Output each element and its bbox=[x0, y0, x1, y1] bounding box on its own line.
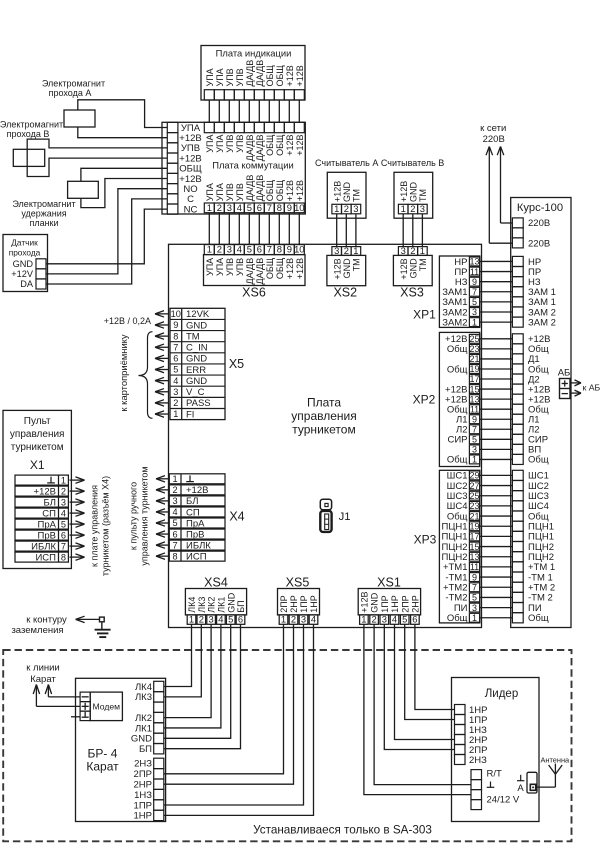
turnstile control board (Плата управления турникетом) bbox=[169, 244, 482, 627]
svg-text:C_IN: C_IN bbox=[186, 343, 208, 354]
dashed enclosure SA-303 bbox=[3, 650, 571, 841]
jumper J1 bbox=[320, 499, 350, 532]
svg-text:1ПР: 1ПР bbox=[134, 800, 152, 811]
svg-text:Пульт: Пульт bbox=[24, 416, 51, 427]
svg-text:ХР2: ХР2 bbox=[413, 393, 436, 407]
svg-text:к пульту ручного: к пульту ручного bbox=[129, 482, 139, 550]
svg-text:13: 13 bbox=[469, 257, 479, 267]
svg-text:GND: GND bbox=[370, 592, 380, 613]
svg-text:8: 8 bbox=[172, 551, 177, 561]
svg-text:ЛК4: ЛК4 bbox=[135, 682, 152, 693]
wires reader to XS2 bbox=[337, 214, 356, 247]
svg-text:ДА/ДВ: ДА/ДВ bbox=[245, 60, 255, 87]
svg-text:УПВ: УПВ bbox=[235, 68, 245, 86]
svg-text:10: 10 bbox=[294, 202, 304, 213]
brace for card receiver pins bbox=[139, 332, 153, 419]
svg-text:GND: GND bbox=[13, 259, 34, 269]
svg-text:21: 21 bbox=[469, 511, 479, 521]
svg-text:3: 3 bbox=[420, 203, 425, 214]
Kurs-100 power/aux pins bbox=[512, 334, 550, 466]
svg-text:4: 4 bbox=[237, 244, 242, 255]
electromagnet B (Электромагнит прохода В) bbox=[0, 119, 63, 166]
svg-text:4: 4 bbox=[392, 613, 397, 624]
battery АБ bbox=[558, 368, 571, 399]
svg-text:1: 1 bbox=[207, 244, 212, 255]
svg-text:ДА/ДВ: ДА/ДВ bbox=[245, 175, 255, 202]
svg-text:Электромагнит: Электромагнит bbox=[42, 79, 105, 89]
svg-text:ДА/ДВ: ДА/ДВ bbox=[245, 135, 255, 162]
indication board (Плата индикации) bbox=[201, 46, 305, 101]
svg-text:+12В: +12В bbox=[34, 486, 56, 497]
svg-text:3: 3 bbox=[227, 202, 232, 213]
svg-text:УПА: УПА bbox=[205, 68, 215, 86]
svg-text:6: 6 bbox=[172, 529, 177, 539]
label к пульту ручного управления турникетом (vertical) bbox=[129, 466, 150, 565]
svg-text:+12В: +12В bbox=[295, 65, 305, 86]
svg-text:3: 3 bbox=[61, 497, 66, 507]
svg-text:УПА: УПА bbox=[205, 135, 215, 153]
svg-text:Модем: Модем bbox=[93, 702, 121, 712]
svg-text:+12В: +12В bbox=[332, 181, 342, 202]
svg-text:ТМ: ТМ bbox=[418, 258, 428, 271]
Lider antenna connector bbox=[527, 772, 537, 793]
svg-text:1: 1 bbox=[334, 203, 339, 214]
electromagnet holding bar (Электромагнит удержания планки) bbox=[12, 181, 98, 228]
svg-text:1НЗ: 1НЗ bbox=[134, 790, 152, 801]
wire sensor +12V to NO pin bbox=[46, 189, 167, 274]
svg-text:R/T: R/T bbox=[487, 768, 503, 779]
ground symbol and A label near antenna connector bbox=[517, 775, 524, 794]
svg-text:9: 9 bbox=[472, 572, 477, 582]
svg-text:СИР: СИР bbox=[447, 435, 467, 446]
svg-text:к АБ: к АБ bbox=[583, 383, 600, 393]
BR-4 Karat unit (БР-4 Карат) bbox=[76, 678, 166, 821]
svg-text:GND: GND bbox=[408, 258, 418, 279]
svg-text:29: 29 bbox=[469, 471, 479, 481]
svg-text:Х4: Х4 bbox=[229, 510, 244, 524]
svg-text:3: 3 bbox=[472, 603, 477, 613]
svg-text:XS3: XS3 bbox=[400, 286, 424, 300]
svg-text:2: 2 bbox=[217, 244, 222, 255]
svg-text:УПВ: УПВ bbox=[225, 135, 235, 153]
svg-text:ХР3: ХР3 bbox=[414, 533, 437, 547]
svg-text:10: 10 bbox=[294, 244, 304, 255]
connector XS3 bbox=[393, 245, 432, 299]
svg-text:5: 5 bbox=[247, 202, 252, 213]
label к плате управления турникетом разъём Х4 (vertical) bbox=[90, 476, 111, 576]
svg-text:Общ: Общ bbox=[447, 344, 468, 355]
svg-text:ОБЩ: ОБЩ bbox=[265, 65, 275, 87]
svg-text:1: 1 bbox=[281, 613, 286, 624]
svg-text:7: 7 bbox=[267, 244, 272, 255]
svg-text:GND: GND bbox=[408, 182, 418, 203]
svg-text:9: 9 bbox=[287, 202, 292, 213]
svg-text:1: 1 bbox=[401, 203, 406, 214]
reader Считыватель А (Считыватель) bbox=[315, 158, 378, 218]
svg-text:17: 17 bbox=[469, 532, 479, 542]
svg-text:Считыватель А: Считыватель А bbox=[315, 158, 378, 168]
svg-text:Карат: Карат bbox=[86, 759, 119, 773]
svg-text:ЛК3: ЛК3 bbox=[135, 692, 152, 703]
svg-text:Общ: Общ bbox=[528, 455, 549, 466]
svg-text:Считыватель В: Считыватель В bbox=[381, 158, 444, 168]
svg-text:7: 7 bbox=[472, 582, 477, 592]
svg-text:+12В: +12В bbox=[285, 180, 295, 201]
svg-text:к плате управления: к плате управления bbox=[90, 485, 100, 567]
svg-text:3: 3 bbox=[382, 613, 387, 624]
svg-text:GND: GND bbox=[186, 376, 207, 387]
svg-text:8: 8 bbox=[277, 244, 282, 255]
svg-text:1: 1 bbox=[189, 613, 194, 624]
svg-text:Антенна: Антенна bbox=[540, 756, 570, 765]
svg-text:Общ: Общ bbox=[447, 613, 468, 624]
svg-text:+12В / 0,2А: +12В / 0,2А bbox=[104, 316, 151, 326]
svg-text:V_C: V_C bbox=[186, 387, 205, 398]
wire electromagnet B to УПВ and +12В pins bbox=[27, 139, 167, 176]
svg-text:УПА: УПА bbox=[215, 258, 225, 276]
svg-text:ЛК1: ЛК1 bbox=[217, 597, 227, 613]
antenna symbol (Антенна) bbox=[536, 756, 570, 788]
svg-text:Общ: Общ bbox=[528, 613, 549, 624]
svg-text:6: 6 bbox=[238, 613, 243, 624]
svg-text:БП: БП bbox=[139, 744, 152, 755]
svg-text:11: 11 bbox=[470, 562, 479, 572]
svg-text:15: 15 bbox=[469, 384, 479, 394]
ground wire with arrow bbox=[76, 618, 100, 620]
svg-text:3: 3 bbox=[353, 203, 358, 214]
svg-text:GND: GND bbox=[342, 182, 352, 203]
svg-text:FI: FI bbox=[186, 409, 194, 420]
svg-text:2НЗ: 2НЗ bbox=[469, 755, 487, 766]
svg-text:планки: планки bbox=[29, 218, 58, 228]
svg-text:ОБЩ: ОБЩ bbox=[275, 179, 285, 201]
svg-text:7: 7 bbox=[61, 541, 66, 551]
connector ХР1 bbox=[413, 256, 480, 328]
connector ХР2 bbox=[413, 332, 480, 466]
svg-text:4: 4 bbox=[237, 202, 242, 213]
svg-text:5: 5 bbox=[172, 518, 177, 528]
svg-text:25: 25 bbox=[469, 491, 479, 501]
svg-text:Электромагнит: Электромагнит bbox=[12, 199, 75, 209]
svg-text:ОБЩ: ОБЩ bbox=[265, 179, 275, 201]
svg-text:9: 9 bbox=[173, 320, 178, 330]
arrows X5 pins to card receiver bbox=[155, 311, 169, 418]
svg-text:9: 9 bbox=[472, 277, 477, 287]
svg-text:ДА/ДВ: ДА/ДВ bbox=[245, 258, 255, 285]
wire sensor DA to C pin bbox=[46, 199, 167, 284]
label к контуру заземления bbox=[11, 614, 67, 636]
to 220V mains label (к сети 220В) bbox=[480, 123, 506, 145]
svg-text:к сети: к сети bbox=[480, 123, 506, 134]
wire holding electromagnet to ОБЩ pin bbox=[81, 168, 167, 181]
svg-text:8: 8 bbox=[277, 202, 282, 213]
svg-text:Курс-100: Курс-100 bbox=[517, 202, 563, 214]
svg-text:прохода А: прохода А bbox=[49, 88, 92, 98]
svg-text:ОБЩ: ОБЩ bbox=[275, 65, 285, 87]
svg-text:ERR: ERR bbox=[186, 365, 206, 376]
svg-text:9: 9 bbox=[287, 244, 292, 255]
wire 220V line 1 with arrow bbox=[486, 147, 512, 244]
connector XS6 bbox=[204, 244, 306, 300]
svg-text:ДА/ДВ: ДА/ДВ bbox=[255, 175, 265, 202]
svg-text:XS1: XS1 bbox=[377, 576, 401, 590]
svg-text:+12В: +12В bbox=[360, 592, 370, 613]
svg-text:GND: GND bbox=[186, 354, 207, 365]
svg-text:ТМ: ТМ bbox=[186, 331, 200, 342]
svg-text:13: 13 bbox=[469, 552, 479, 562]
svg-text:Плата индикации: Плата индикации bbox=[216, 48, 292, 59]
ground terminal square bbox=[100, 617, 105, 622]
svg-text:БП: БП bbox=[236, 600, 246, 612]
svg-text:БЛ: БЛ bbox=[44, 497, 56, 508]
wire electromagnet A to УПА pin bbox=[78, 100, 168, 128]
svg-text:3: 3 bbox=[173, 387, 178, 397]
svg-text:А: А bbox=[517, 783, 524, 794]
svg-text:2: 2 bbox=[61, 486, 66, 496]
wires indication board to commutation board bbox=[209, 100, 299, 122]
svg-text:УПА: УПА bbox=[215, 68, 225, 86]
svg-text:5: 5 bbox=[61, 519, 66, 529]
svg-text:Общ: Общ bbox=[447, 364, 468, 375]
svg-text:3: 3 bbox=[208, 613, 213, 624]
Lider relay pins bbox=[455, 705, 488, 766]
svg-text:12VK: 12VK bbox=[186, 309, 210, 320]
svg-text:ОБЩ: ОБЩ bbox=[275, 134, 285, 156]
connector XS1 bbox=[358, 576, 420, 625]
wires XS1 to Lider bbox=[384, 625, 454, 750]
svg-text:ХР1: ХР1 bbox=[413, 308, 436, 322]
svg-text:5: 5 bbox=[228, 613, 233, 624]
svg-text:10: 10 bbox=[171, 309, 181, 319]
svg-text:3: 3 bbox=[227, 244, 232, 255]
svg-text:ОБЩ: ОБЩ bbox=[275, 257, 285, 279]
svg-text:3: 3 bbox=[472, 307, 477, 317]
svg-text:2НЗ: 2НЗ bbox=[134, 759, 152, 770]
svg-text:ЛК4: ЛК4 bbox=[187, 597, 197, 613]
svg-text:ЛК2: ЛК2 bbox=[207, 597, 217, 613]
svg-text:1НР: 1НР bbox=[134, 811, 152, 822]
svg-text:+12В: +12В bbox=[399, 258, 409, 279]
svg-text:+12В: +12В bbox=[285, 65, 295, 86]
svg-text:2: 2 bbox=[173, 398, 178, 408]
connector XS5 bbox=[278, 576, 320, 625]
commutation board left pin column bbox=[167, 122, 202, 215]
BR-4 relay pins 2НЗ..1НР bbox=[134, 758, 164, 822]
svg-text:ИСП: ИСП bbox=[186, 551, 207, 562]
svg-text:УПВ: УПВ bbox=[225, 258, 235, 276]
svg-text:2: 2 bbox=[410, 203, 415, 214]
svg-text:23: 23 bbox=[469, 344, 479, 354]
svg-text:1НР: 1НР bbox=[309, 595, 319, 613]
svg-text:1: 1 bbox=[420, 245, 425, 256]
svg-text:4: 4 bbox=[173, 376, 178, 386]
svg-text:11: 11 bbox=[470, 404, 479, 414]
svg-text:220В: 220В bbox=[528, 218, 550, 229]
svg-text:СП: СП bbox=[42, 508, 56, 519]
svg-text:2ПР: 2ПР bbox=[134, 769, 152, 780]
svg-text:к линии: к линии bbox=[26, 663, 60, 674]
svg-text:ПрВ: ПрВ bbox=[186, 529, 204, 540]
wires reader to XS3 bbox=[403, 214, 422, 247]
svg-text:управления: управления bbox=[291, 409, 356, 423]
svg-text:ИБЛК: ИБЛК bbox=[186, 540, 211, 551]
svg-text:2: 2 bbox=[291, 613, 296, 624]
ground symbol bbox=[95, 622, 111, 637]
svg-text:ТМ: ТМ bbox=[352, 258, 362, 271]
svg-text:4: 4 bbox=[61, 508, 66, 518]
svg-text:2ПР: 2ПР bbox=[400, 595, 410, 612]
svg-text:4: 4 bbox=[218, 613, 223, 624]
electromagnet A (Электромагнит прохода А) bbox=[42, 79, 105, 127]
svg-text:9: 9 bbox=[472, 414, 477, 424]
commutation board (Плата коммутации) bbox=[162, 122, 305, 214]
svg-text:3: 3 bbox=[334, 245, 339, 256]
svg-text:5: 5 bbox=[472, 297, 477, 307]
svg-text:X5: X5 bbox=[229, 357, 244, 371]
svg-text:7: 7 bbox=[472, 424, 477, 434]
svg-text:Карат: Карат bbox=[30, 674, 56, 685]
svg-text:2: 2 bbox=[344, 203, 349, 214]
svg-text:УПА: УПА bbox=[215, 135, 225, 153]
turnstile control panel X1 (Пульт управления турникетом) bbox=[3, 410, 71, 568]
svg-text:11: 11 bbox=[470, 267, 479, 277]
wire holding electromagnet to +12В pin bbox=[81, 179, 167, 208]
Lider unit (Лидер) bbox=[452, 678, 540, 822]
svg-text:ИБЛК: ИБЛК bbox=[31, 541, 56, 552]
svg-text:ТМ: ТМ bbox=[418, 189, 428, 202]
svg-text:8: 8 bbox=[61, 552, 66, 562]
svg-text:управления: управления bbox=[10, 429, 65, 440]
svg-text:ОБЩ: ОБЩ bbox=[265, 257, 275, 279]
wires XS1 power to Lider R/T bbox=[364, 625, 471, 795]
svg-text:PASS: PASS bbox=[186, 398, 211, 409]
svg-text:J1: J1 bbox=[339, 511, 351, 523]
svg-text:3: 3 bbox=[472, 445, 477, 455]
reader Считыватель В (Считыватель) bbox=[381, 158, 444, 218]
svg-text:УПВ: УПВ bbox=[235, 258, 245, 276]
svg-text:8: 8 bbox=[173, 331, 178, 341]
svg-text:7: 7 bbox=[472, 287, 477, 297]
wires commutation board to XS6 bbox=[209, 213, 299, 245]
svg-text:1НР: 1НР bbox=[390, 595, 400, 613]
svg-text:15: 15 bbox=[469, 542, 479, 552]
svg-text:прохода: прохода bbox=[9, 248, 41, 258]
svg-text:ДА/ДВ: ДА/ДВ bbox=[255, 258, 265, 285]
svg-text:GND: GND bbox=[186, 320, 207, 331]
svg-text:+12В: +12В bbox=[285, 135, 295, 156]
svg-text:3: 3 bbox=[172, 496, 177, 506]
svg-text:ЛК2: ЛК2 bbox=[135, 713, 152, 724]
svg-text:XS5: XS5 bbox=[286, 576, 310, 590]
modem box (Модем) bbox=[90, 692, 122, 721]
modem ground stub bbox=[71, 716, 80, 718]
svg-text:заземления: заземления bbox=[11, 625, 63, 636]
svg-text:+12В: +12В bbox=[295, 258, 305, 279]
wires ХР1 to Kurs-100 bbox=[480, 261, 513, 322]
svg-text:27: 27 bbox=[469, 481, 479, 491]
svg-text:220В: 220В bbox=[528, 238, 550, 249]
svg-text:2: 2 bbox=[371, 613, 376, 624]
svg-text:1: 1 bbox=[207, 202, 212, 213]
svg-text:13: 13 bbox=[469, 394, 479, 404]
svg-text:7: 7 bbox=[173, 342, 178, 352]
svg-text:удержания: удержания bbox=[21, 209, 66, 219]
svg-text:Устанавливаеся только в SA-303: Устанавливаеся только в SA-303 bbox=[253, 824, 432, 837]
svg-text:к контуру: к контуру bbox=[26, 614, 67, 625]
svg-text:Электромагнит: Электромагнит bbox=[0, 119, 63, 129]
svg-text:2: 2 bbox=[199, 613, 204, 624]
Kurs-100 relay pins НР..ЗАМ2 bbox=[512, 256, 556, 328]
svg-text:6: 6 bbox=[173, 354, 178, 364]
svg-text:УПВ: УПВ bbox=[225, 183, 235, 201]
svg-text:Х1: Х1 bbox=[30, 458, 45, 472]
svg-text:АБ: АБ bbox=[558, 368, 571, 379]
svg-text:1ПР: 1ПР bbox=[299, 595, 309, 612]
svg-text:ПрА: ПрА bbox=[38, 519, 57, 530]
svg-text:XS2: XS2 bbox=[333, 286, 357, 300]
connector XS4 bbox=[185, 576, 246, 625]
svg-text:Плата: Плата bbox=[307, 396, 341, 410]
svg-text:1: 1 bbox=[472, 455, 477, 465]
wire Karat line 1 with arrow bbox=[33, 685, 80, 707]
svg-text:3: 3 bbox=[301, 613, 306, 624]
wire sensor GND to NC pin bbox=[46, 209, 167, 264]
svg-text:ЗАМ 2: ЗАМ 2 bbox=[528, 317, 556, 328]
svg-text:1ПР: 1ПР bbox=[380, 595, 390, 612]
arrows X4 pins to manual control panel bbox=[156, 476, 169, 560]
svg-text:ДА/ДВ: ДА/ДВ bbox=[255, 60, 265, 87]
Kurs-100 loop/TM pins bbox=[512, 470, 555, 624]
svg-text:турникетом: турникетом bbox=[11, 442, 64, 453]
svg-text:ПрВ: ПрВ bbox=[38, 530, 56, 541]
svg-text:5: 5 bbox=[247, 244, 252, 255]
svg-text:2НР: 2НР bbox=[134, 780, 152, 791]
svg-text:2НР: 2НР bbox=[289, 595, 299, 613]
wire Karat line 2 with arrow bbox=[45, 685, 80, 697]
svg-text:1: 1 bbox=[61, 475, 66, 485]
svg-text:GND: GND bbox=[342, 258, 352, 279]
svg-text:+12В: +12В bbox=[399, 181, 409, 202]
svg-text:7: 7 bbox=[267, 202, 272, 213]
wire electromagnet A to +12В pin bbox=[78, 127, 168, 138]
svg-text:21: 21 bbox=[469, 354, 479, 364]
Kurs-100 220V pins bbox=[512, 218, 550, 249]
svg-text:4: 4 bbox=[311, 613, 316, 624]
BR-4 line pins ЛК4..БП bbox=[131, 681, 164, 755]
svg-text:прохода В: прохода В bbox=[7, 129, 50, 139]
Lider R/T power connector bbox=[471, 768, 520, 809]
svg-text:4: 4 bbox=[172, 507, 177, 517]
modem connector pins bbox=[80, 692, 90, 721]
svg-text:1: 1 bbox=[361, 613, 366, 624]
svg-text:УПВ: УПВ bbox=[235, 135, 245, 153]
svg-text:1: 1 bbox=[173, 409, 178, 419]
svg-text:6: 6 bbox=[257, 244, 262, 255]
connector XS2 bbox=[327, 245, 366, 299]
svg-text:к картоприёмнику: к картоприёмнику bbox=[118, 334, 129, 411]
svg-text:6: 6 bbox=[257, 202, 262, 213]
svg-text:19: 19 bbox=[469, 521, 479, 531]
svg-text:1: 1 bbox=[472, 613, 477, 623]
svg-text:+12В: +12В bbox=[285, 258, 295, 279]
svg-text:220В: 220В bbox=[483, 134, 505, 145]
svg-text:управления турникетом: управления турникетом bbox=[140, 466, 150, 565]
arrows to battery (к АБ) bbox=[570, 380, 600, 396]
svg-text:СП: СП bbox=[186, 507, 200, 518]
arrows X1 to control board bbox=[70, 477, 85, 560]
svg-text:турникетом: турникетом bbox=[292, 423, 355, 437]
svg-text:NC: NC bbox=[184, 204, 198, 215]
